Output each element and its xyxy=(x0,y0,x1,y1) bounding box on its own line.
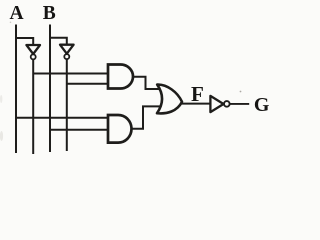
inverter U1 bubble xyxy=(31,54,36,59)
inverter U6 triangle xyxy=(210,96,223,112)
inverter U2 bubble xyxy=(64,54,69,59)
wire: branch from A to inverter U1 xyxy=(16,38,33,46)
wire: B' vertical line xyxy=(66,59,68,151)
wire: A' to AND1 upper input xyxy=(33,73,109,75)
wire: AND2 output to OR lower input xyxy=(132,106,161,128)
wire: B to AND2 lower input xyxy=(50,129,109,131)
wire: B' to AND1 lower input xyxy=(67,83,109,85)
inverter U1 triangle (NOT A) xyxy=(26,45,40,54)
wire: input A vertical line xyxy=(15,25,17,154)
inverter U6 bubble xyxy=(224,101,230,107)
svg-text:B: B xyxy=(43,3,56,24)
wire: inverter U6 output to G xyxy=(230,103,249,105)
svg-text:F: F xyxy=(191,82,204,106)
AND gate U3 (top) xyxy=(108,65,133,89)
wire: AND1 output to OR upper input xyxy=(133,77,160,89)
wire: branch from B to inverter U2 xyxy=(50,38,67,46)
OR gate U5 xyxy=(157,85,182,114)
wire: A to AND2 upper input xyxy=(16,117,109,119)
wire: OR output node F xyxy=(182,103,211,105)
svg-text:A: A xyxy=(10,3,24,24)
svg-text:G: G xyxy=(254,94,270,116)
inverter U2 triangle (NOT B) xyxy=(60,45,74,54)
wire: A' vertical line xyxy=(32,60,34,154)
AND gate U4 (bottom) xyxy=(108,115,132,143)
wire: input B vertical line xyxy=(49,25,51,153)
